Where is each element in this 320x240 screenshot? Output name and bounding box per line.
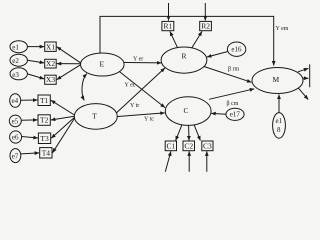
- indicator box X1: [45, 42, 57, 51]
- indicator box X3: [45, 75, 57, 84]
- latent ellipse E: [81, 53, 125, 76]
- indicator box T3: [38, 133, 50, 144]
- arrow residual stub into C3 bottom: [206, 151, 208, 172]
- svg-text:T2: T2: [40, 116, 49, 125]
- svg-text:C2: C2: [184, 141, 193, 150]
- svg-text:C3: C3: [203, 141, 212, 150]
- arrow T to T3: [51, 116, 76, 138]
- arrow M to right indicator 3: [296, 85, 308, 99]
- arrow e5 to T2: [21, 119, 37, 121]
- error circle e18: [273, 113, 286, 139]
- svg-text:e4: e4: [11, 97, 18, 105]
- arrow residual stub into R2 top: [204, 3, 206, 21]
- arrow E to X3: [57, 64, 82, 80]
- svg-text:X2: X2: [46, 59, 55, 68]
- indicator box C3: [202, 141, 213, 151]
- svg-text:e1: e1: [275, 117, 282, 125]
- svg-text:T4: T4: [42, 148, 51, 157]
- svg-text:e6: e6: [12, 134, 19, 142]
- svg-text:E: E: [100, 59, 105, 68]
- latent ellipse C: [165, 97, 211, 126]
- svg-text:X3: X3: [46, 75, 55, 84]
- arrow e16 to R: [207, 52, 228, 58]
- error circle e4: [10, 94, 21, 108]
- arrow C to M (beta cm): [209, 89, 254, 100]
- error circle e1: [10, 41, 27, 53]
- arrow T to T2: [51, 116, 76, 120]
- arrow R to R1: [170, 31, 178, 47]
- svg-text:e16: e16: [231, 46, 242, 54]
- arrow e3 to X3: [27, 74, 44, 79]
- wire E to M top route (Y em path): [100, 16, 274, 65]
- arrow R to M (beta rm): [204, 67, 252, 83]
- arrow e17 to C: [211, 112, 226, 115]
- indicator box C1: [165, 141, 176, 151]
- svg-text:T3: T3: [40, 134, 49, 143]
- arrow e18 to M: [278, 94, 280, 112]
- error circle e16: [227, 42, 245, 56]
- svg-text:Y tc: Y tc: [144, 117, 154, 123]
- arrow M to right indicator 2: [301, 77, 309, 79]
- arrow M to right indicator 1: [298, 68, 308, 72]
- svg-text:Y er: Y er: [133, 56, 143, 62]
- arrow e2 to X2: [27, 60, 44, 63]
- svg-text:Y tr: Y tr: [130, 103, 139, 109]
- arrow E to X2: [57, 63, 82, 65]
- indicator box C2: [183, 141, 195, 151]
- error circle e7: [10, 149, 21, 163]
- svg-text:e5: e5: [12, 118, 19, 126]
- indicator box R1: [162, 21, 174, 30]
- svg-text:R1: R1: [164, 22, 173, 31]
- svg-text:R2: R2: [201, 22, 210, 31]
- arrow C to C2: [188, 125, 190, 140]
- svg-text:β cm: β cm: [227, 101, 239, 107]
- svg-text:e7: e7: [12, 152, 19, 160]
- indicator box T1: [38, 95, 50, 106]
- svg-text:T: T: [92, 112, 97, 121]
- arrow C to C3: [194, 125, 200, 141]
- covariance curve E and T: [82, 74, 87, 101]
- arrow E to X1: [57, 47, 82, 64]
- wire cropped box edge right of M: [309, 64, 311, 87]
- error circle e6: [10, 131, 22, 143]
- error circle e2: [10, 54, 27, 66]
- arrow E to C (Y ec): [118, 71, 165, 108]
- svg-text:R: R: [181, 52, 186, 61]
- arrow residual stub into C2 bottom: [188, 151, 190, 172]
- arrow C to C1: [176, 125, 182, 141]
- arrow T to T4: [53, 116, 77, 153]
- svg-text:Y ec: Y ec: [125, 82, 136, 88]
- arrow e4 to T1: [21, 99, 38, 101]
- arrow R to R2: [192, 31, 202, 48]
- arrow T to T1: [51, 100, 76, 116]
- latent ellipse M: [252, 68, 303, 94]
- error circle e17: [226, 108, 244, 120]
- svg-text:X1: X1: [46, 42, 55, 51]
- indicator box X2: [45, 59, 57, 68]
- svg-text:T1: T1: [40, 96, 49, 105]
- svg-text:M: M: [272, 75, 279, 84]
- svg-text:e3: e3: [12, 71, 19, 79]
- arrow T to R (Y tr): [116, 68, 165, 113]
- svg-text:e17: e17: [230, 111, 241, 119]
- indicator box R2: [200, 21, 212, 30]
- svg-text:Y em: Y em: [276, 26, 289, 32]
- indicator box T4: [40, 148, 52, 158]
- arrow e1 to X1: [27, 46, 44, 48]
- arrow e6 to T3: [22, 137, 38, 139]
- error circle e5: [9, 115, 21, 127]
- error circle e3: [10, 68, 27, 80]
- arrow residual stub into C1 bottom: [165, 151, 171, 172]
- arrow e7 to T4: [21, 153, 39, 154]
- latent ellipse R: [161, 47, 207, 73]
- svg-text:C1: C1: [167, 141, 176, 150]
- indicator box T2: [38, 115, 50, 126]
- svg-text:8: 8: [277, 126, 281, 134]
- arrow E to R (Y er): [118, 61, 161, 64]
- arrow residual stub into R1 top: [168, 3, 170, 21]
- arrow T to C (Y tc): [116, 113, 165, 117]
- svg-text:C: C: [183, 106, 188, 115]
- latent ellipse T: [74, 104, 117, 130]
- svg-text:e1: e1: [12, 44, 19, 52]
- svg-text:β rm: β rm: [228, 67, 240, 73]
- svg-text:e2: e2: [12, 57, 19, 65]
